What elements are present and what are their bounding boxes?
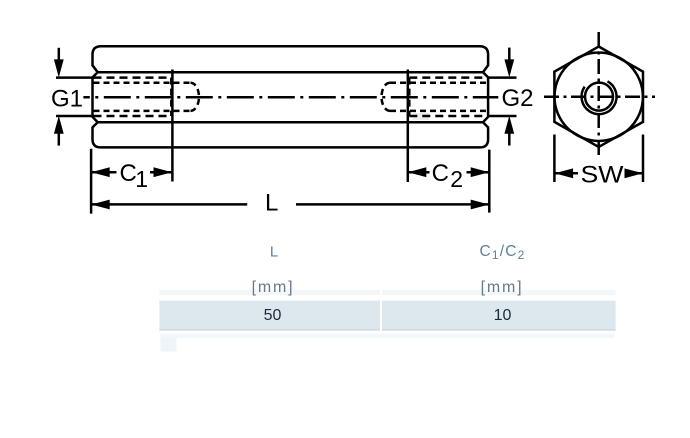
- thread arc 3/4 circle (end view): [582, 81, 617, 114]
- hole G2 rounded end dashed arc: [382, 83, 391, 111]
- data row cell C background: [382, 301, 616, 330]
- svg-text:G2: G2: [502, 85, 534, 112]
- SW extension line left: [553, 135, 556, 183]
- SW extension line right: [642, 135, 645, 183]
- C1 left arrowhead: [91, 167, 110, 177]
- C2 extension line: [407, 70, 410, 183]
- G2 bottom arrowhead: [504, 116, 514, 134]
- L extension line left: [90, 149, 93, 214]
- SW right arrowhead: [625, 168, 644, 178]
- svg-text:SW: SW: [581, 161, 624, 188]
- hole G2 inner bottom dashed: [390, 110, 487, 113]
- thread G1 outer bottom dashed: [94, 115, 172, 118]
- svg-text:G1: G1: [51, 86, 83, 113]
- L dimension line: [91, 203, 247, 206]
- hole G1 inner bottom dashed: [94, 110, 191, 113]
- C2 right arrowhead: [471, 167, 490, 177]
- L extension line right: [488, 150, 491, 213]
- partial next row left cell: [161, 338, 177, 352]
- C2 left arrowhead: [408, 167, 427, 177]
- hole G1 inner top dashed: [94, 82, 191, 85]
- G1 extension line top: [56, 76, 93, 79]
- SW dimension line left: [554, 172, 578, 175]
- G2 top arrow line: [508, 48, 511, 61]
- svg-text:2: 2: [450, 166, 463, 192]
- hole G1 rounded end dashed arc: [191, 83, 200, 111]
- C1 right arrowhead: [154, 167, 173, 177]
- svg-text:[mm]: [mm]: [481, 279, 524, 296]
- svg-text:L: L: [270, 244, 278, 261]
- thread G1 outer top dashed: [94, 76, 172, 79]
- G1 bottom arrowhead: [54, 116, 64, 134]
- thead bottom light band right: [382, 290, 616, 295]
- hole circle (end view): [585, 83, 613, 111]
- G2 bottom arrow line: [508, 132, 511, 146]
- L left arrowhead: [91, 200, 110, 210]
- G2 extension line bottom: [487, 115, 517, 118]
- thread G1 end vertical dashed: [170, 78, 173, 116]
- hexagon (end view): [554, 47, 643, 148]
- data row cell L background: [159, 301, 380, 330]
- SW dimension line right: [626, 172, 643, 175]
- G1 top arrow line: [58, 48, 61, 61]
- C1 dimension line: [91, 171, 116, 174]
- G1 bottom arrow line: [58, 132, 61, 146]
- horizontal centerline (end view): [544, 95, 655, 98]
- partial next row strip: [160, 334, 615, 338]
- G2 top arrowhead: [504, 59, 514, 77]
- svg-text:50: 50: [264, 307, 282, 324]
- SW left arrowhead: [555, 168, 574, 178]
- vertical centerline (end view): [597, 32, 600, 158]
- thead bottom light band left: [159, 290, 380, 295]
- svg-text:1: 1: [135, 166, 148, 192]
- L right arrowhead: [471, 200, 490, 210]
- thread G2 outer top dashed: [409, 76, 487, 79]
- thread G2 end vertical dashed: [408, 78, 411, 116]
- faint watermark smudge: [413, 113, 430, 120]
- hex face edge bottom (side view): [98, 121, 484, 124]
- C2 dimension line: [408, 171, 430, 174]
- svg-text:L: L: [265, 190, 278, 217]
- inscribed circle (end view): [555, 53, 643, 141]
- svg-text:C1/C2: C1/C2: [479, 243, 525, 262]
- G1 extension line bottom: [56, 115, 93, 118]
- svg-text:[mm]: [mm]: [252, 279, 295, 296]
- thread G2 outer bottom dashed: [409, 115, 487, 118]
- svg-text:C: C: [432, 160, 449, 187]
- spacer body outline (side view): [93, 46, 489, 147]
- hex face edge top (side view): [98, 71, 484, 74]
- G2 extension line top: [487, 76, 517, 79]
- centerline (side view): [83, 96, 498, 99]
- G1 top arrowhead: [54, 59, 64, 77]
- hole G2 inner top dashed: [390, 82, 487, 85]
- C1 extension line: [171, 70, 174, 182]
- svg-text:10: 10: [494, 307, 512, 324]
